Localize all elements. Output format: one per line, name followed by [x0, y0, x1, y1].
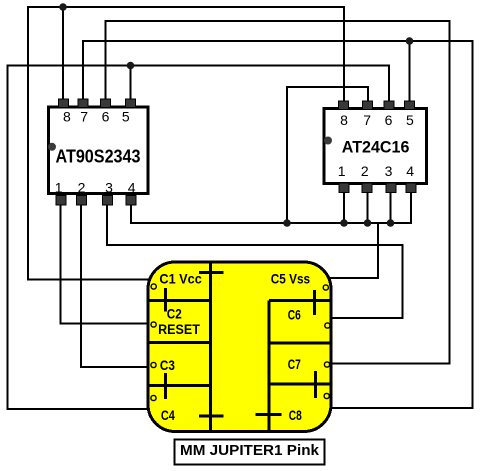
junction bus / AT24C16 pin1 [340, 219, 348, 227]
wire AT24C16 pin 3 to ground bus [390, 192, 392, 223]
svg-text:AT24C16: AT24C16 [342, 138, 410, 157]
AT90S2343 pin 3 pad [102, 196, 112, 206]
AT90S2343 pin 6 pad [100, 99, 110, 108]
svg-text:MM JUPITER1 Pink: MM JUPITER1 Pink [180, 442, 320, 459]
IC U1 pin 1 marker dot [48, 143, 56, 151]
svg-text:6: 6 [102, 108, 110, 124]
svg-text:C3: C3 [160, 358, 175, 373]
contact C6 cross mark [313, 290, 316, 315]
svg-text:C6: C6 [288, 308, 301, 323]
AT90S2343 pin 4 pad [126, 196, 136, 206]
svg-text:RESET: RESET [158, 322, 200, 337]
contact C7 cross mark [314, 371, 317, 398]
AT24C16 pin 2 pad [362, 183, 372, 192]
card right divider below C7 [269, 383, 331, 386]
card right column divider [268, 301, 271, 432]
wire AT24C16 pin 2 to ground bus [367, 192, 369, 223]
svg-text:4: 4 [406, 163, 414, 179]
junction C4 net / AT90S2343 pin5 [127, 62, 135, 70]
AT24C16 pin 4 pad [406, 183, 416, 192]
wire net C6: AT90S2343 pin 3 to card C6 [107, 205, 402, 318]
svg-text:7: 7 [363, 112, 371, 128]
wire branch Vcc to AT90S2343 pin 8 [62, 7, 64, 100]
AT24C16 pin 7 pad [363, 101, 373, 109]
card hole C4 [151, 395, 156, 400]
card hole C3 [151, 362, 156, 367]
svg-text:2: 2 [361, 163, 369, 179]
AT24C16 pin 6 pad [384, 101, 394, 109]
svg-text:C1 Vcc: C1 Vcc [159, 272, 202, 287]
card hole C6 [325, 323, 330, 328]
junction bus / AT24C16 pin7 link [283, 219, 291, 227]
card left divider below C3 [148, 384, 211, 387]
junction Vcc / pin8 [59, 3, 67, 11]
svg-text:3: 3 [385, 163, 393, 179]
card center divider [209, 262, 212, 432]
contact C3 cross mark [164, 373, 167, 399]
svg-text:5: 5 [406, 112, 414, 128]
svg-text:C4: C4 [161, 408, 175, 423]
svg-text:C5 Vss: C5 Vss [271, 272, 310, 287]
card hole C7 [324, 362, 329, 367]
AT24C16 pin 5 pad [405, 101, 415, 109]
wire AT24C16 pin 7 to ground bus [287, 87, 368, 223]
smartcard body MM JUPITER1 [148, 262, 331, 432]
title box MM JUPITER1 Pink [175, 440, 325, 465]
wire card C5 to ground bus [326, 223, 378, 278]
svg-text:C7: C7 [288, 357, 301, 372]
bottom center cross mark C4 [199, 415, 224, 418]
svg-text:6: 6 [385, 112, 393, 128]
wire net Vcc: card C1 to AT90S2343 pin 8 and AT24C16 pin 8 [28, 7, 344, 280]
svg-text:AT90S2343: AT90S2343 [56, 147, 141, 167]
wire net C4: AT24C16 pin 6 to AT90S2343 pin 5 to card C4 [8, 66, 390, 410]
AT24C16 pin 3 pad [386, 183, 396, 192]
IC U1 AT90S2343 body [49, 107, 148, 194]
junction bus / AT24C16 pin3 [387, 219, 395, 227]
wire branch to AT90S2343 pin 5 [130, 66, 132, 101]
junction bus / AT24C16 pin2 [364, 219, 372, 227]
contact C1 cross mark [164, 288, 167, 312]
IC U2 pin 1 marker dot [324, 137, 332, 145]
contact C8 cross mark [256, 413, 282, 416]
AT90S2343 pin 1 pad [56, 196, 66, 206]
IC U2 AT24C16 body [324, 108, 426, 183]
wire net C3: AT90S2343 pin 2 to card C3 [81, 205, 155, 367]
svg-text:C2: C2 [167, 306, 182, 321]
AT90S2343 pin 5 pad [126, 99, 136, 108]
card hole C2 [151, 322, 156, 327]
svg-text:1: 1 [338, 163, 346, 179]
svg-text:4: 4 [128, 180, 136, 196]
junction C8 net / AT24C16 pin5 [406, 37, 414, 45]
AT24C16 pin 8 pad [339, 101, 349, 109]
AT90S2343 pin 2 pad [77, 196, 87, 206]
svg-text:2: 2 [78, 180, 86, 196]
card right divider below C5 [269, 299, 331, 302]
AT90S2343 pin 8 pad [58, 99, 68, 108]
card left divider below C1 [148, 299, 211, 302]
svg-text:5: 5 [122, 108, 130, 124]
wire net C7: AT90S2343 pin 6 to card C7 [106, 21, 450, 364]
wire net C2 RESET: AT90S2343 pin 1 to card C2 [61, 205, 156, 324]
svg-text:1: 1 [55, 180, 63, 196]
wire net C8: AT90S2343 pin 7 to AT24C16 pin 5 to card C8 [83, 41, 473, 408]
wire ground bus: AT90S2343 pin 4 to AT24C16 pin 4 [131, 192, 411, 223]
card hole C8 [324, 393, 329, 398]
svg-text:7: 7 [80, 108, 88, 124]
wire AT24C16 pin 1 to ground bus [343, 192, 345, 223]
svg-text:3: 3 [105, 180, 113, 196]
card right divider below C6 [269, 341, 331, 344]
wire branch to AT24C16 pin 5 [409, 41, 411, 102]
svg-text:8: 8 [340, 112, 348, 128]
card hole C1 [151, 284, 156, 289]
AT90S2343 pin 7 pad [78, 99, 88, 108]
top center cross mark [199, 271, 224, 274]
AT24C16 pin 1 pad [339, 183, 349, 192]
card left divider below C2 [148, 341, 211, 344]
svg-text:C8: C8 [289, 408, 302, 423]
card hole C5 [323, 285, 328, 290]
svg-text:8: 8 [63, 108, 71, 124]
